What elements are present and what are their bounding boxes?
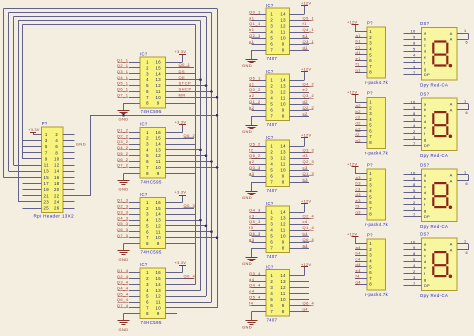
svg-text:2: 2 (413, 200, 416, 205)
svg-text:2: 2 (55, 132, 58, 137)
svg-text:9: 9 (413, 35, 416, 40)
svg-text:10: 10 (54, 156, 60, 161)
svg-text:DS?: DS? (420, 163, 430, 168)
svg-text:A: A (450, 241, 453, 246)
IC9 right net labels (303, 301, 315, 312)
svg-text:5: 5 (369, 52, 372, 57)
svg-text:g3: g3 (356, 209, 362, 214)
svg-text:+12V: +12V (347, 162, 357, 166)
IC4 left net labels (117, 268, 129, 308)
svg-text:g: g (424, 66, 427, 71)
IC1 left net labels (117, 57, 129, 97)
svg-text:a2: a2 (249, 93, 255, 98)
svg-text:e2: e2 (303, 87, 309, 92)
svg-text:A: A (450, 107, 453, 112)
svg-text:OE: OE (179, 75, 186, 80)
svg-text:11: 11 (281, 96, 286, 101)
svg-text:Q0_1: Q0_1 (249, 9, 261, 14)
svg-text:1: 1 (146, 60, 149, 65)
svg-text:Q2_3: Q2_3 (117, 204, 129, 209)
svg-text:+12V: +12V (347, 232, 357, 236)
svg-text:b1: b1 (249, 27, 255, 32)
power +12V at IC8 pin14 (289, 199, 311, 212)
wire cascade into IC3 pin14 (165, 214, 195, 216)
svg-text:2: 2 (270, 18, 273, 23)
svg-text:10: 10 (410, 99, 416, 104)
svg-text:10: 10 (156, 305, 162, 310)
svg-text:A: A (450, 37, 453, 42)
wire loop/bus OE net (18, 21, 201, 291)
svg-text:6: 6 (146, 89, 149, 94)
svg-text:7: 7 (45, 150, 48, 155)
svg-text:6: 6 (270, 174, 273, 179)
svg-text:7407: 7407 (267, 254, 278, 259)
svg-text:14: 14 (280, 78, 286, 83)
svg-text:7: 7 (270, 48, 273, 53)
svg-text:3: 3 (369, 111, 372, 116)
net STCP at IC1 pin12 (165, 81, 207, 87)
header left pin wires (23, 141, 42, 209)
svg-text:b: b (424, 37, 427, 42)
svg-text:1: 1 (464, 29, 466, 33)
svg-text:8: 8 (282, 246, 285, 251)
svg-text:2: 2 (369, 35, 372, 40)
svg-text:+12V: +12V (301, 263, 311, 267)
power +3.3V at header pin1 (28, 128, 41, 135)
DS2 common anode pins 1 and 6 (457, 100, 469, 115)
net label GND at header pin6 (76, 141, 86, 146)
svg-text:P?: P? (367, 162, 373, 167)
DS4 segment pin wires (404, 239, 422, 286)
svg-text:20: 20 (54, 187, 60, 192)
svg-text:6: 6 (466, 111, 468, 115)
svg-text:Dpy Red-CA: Dpy Red-CA (420, 82, 448, 87)
svg-text:Q1_3: Q1_3 (117, 198, 129, 203)
svg-text:9: 9 (282, 108, 285, 113)
svg-text:1: 1 (369, 241, 372, 246)
svg-text:IC?: IC? (140, 192, 148, 197)
svg-text:e3: e3 (249, 213, 255, 218)
wire cascade into IC4 pin14 (165, 284, 195, 286)
svg-text:13: 13 (280, 18, 286, 23)
svg-text:7: 7 (146, 235, 149, 240)
svg-text:12: 12 (156, 153, 162, 158)
svg-text:Q4_4: Q4_4 (117, 285, 129, 290)
IC8 left net labels (249, 207, 261, 242)
svg-text:8: 8 (55, 150, 58, 155)
power +12V at RP1 pin1 (347, 20, 367, 31)
net MR at IC4 pin10 (165, 307, 217, 309)
IC6 7407 hex buffer (266, 69, 289, 127)
svg-text:7: 7 (369, 206, 372, 211)
svg-text:6: 6 (466, 251, 468, 255)
resistor pack RP2 r-pack4.7k (365, 91, 389, 156)
IC5 right net labels (303, 15, 315, 50)
IC9 right pin wires (289, 282, 309, 312)
svg-text:GND: GND (119, 327, 129, 332)
svg-text:7: 7 (369, 276, 372, 281)
svg-text:b: b (424, 247, 427, 252)
IC6 left input wires (252, 81, 267, 111)
svg-text:14: 14 (280, 12, 286, 17)
svg-text:g: g (424, 208, 427, 213)
svg-text:A: A (450, 101, 453, 106)
svg-text:9: 9 (413, 176, 416, 181)
resistor pack RP4 r-pack4.7k (365, 232, 389, 297)
IC5 left input wires (252, 15, 267, 45)
svg-text:c: c (424, 43, 426, 48)
svg-text:5: 5 (270, 234, 273, 239)
net Q0_3 at IC3 pin15 (165, 203, 195, 208)
ground at IC7 pin7 (242, 182, 266, 200)
svg-text:+12V: +12V (301, 1, 311, 5)
svg-text:Q6_1: Q6_1 (117, 87, 129, 92)
svg-text:11: 11 (44, 163, 49, 168)
svg-text:Q6_4: Q6_4 (303, 301, 315, 306)
svg-text:+3.3V: +3.3V (175, 120, 187, 124)
svg-text:2: 2 (146, 65, 149, 70)
svg-text:3: 3 (413, 206, 416, 211)
svg-text:A: A (450, 247, 453, 252)
svg-text:Rpi Header 13X2: Rpi Header 13X2 (34, 214, 75, 219)
svg-text:13: 13 (156, 288, 162, 293)
IC6 right net labels (303, 81, 315, 116)
svg-text:+12V: +12V (347, 91, 357, 95)
display DS3 Dpy Red-CA 7-segment (420, 163, 457, 229)
ground at IC3 pin8 (118, 244, 141, 262)
svg-text:f2: f2 (249, 147, 254, 152)
svg-text:b1: b1 (356, 39, 362, 44)
resistor pack RP3 r-pack4.7k (365, 162, 389, 227)
svg-text:14: 14 (54, 169, 60, 174)
svg-text:2: 2 (413, 129, 416, 134)
power +12V at RP3 pin1 (347, 162, 367, 173)
svg-text:f1: f1 (303, 21, 308, 26)
svg-text:GND: GND (76, 141, 86, 146)
svg-text:11: 11 (281, 228, 286, 233)
junction on GND rail below IC1 ground (122, 114, 125, 117)
svg-text:Dpy Red-CA: Dpy Red-CA (420, 224, 448, 229)
svg-text:3: 3 (146, 71, 149, 76)
IC3 left net labels (117, 198, 129, 238)
svg-text:2: 2 (369, 247, 372, 252)
svg-text:2: 2 (270, 150, 273, 155)
svg-text:1: 1 (369, 171, 372, 176)
svg-text:4: 4 (369, 47, 372, 52)
svg-text:r-pack4.7k: r-pack4.7k (365, 222, 389, 227)
IC1 74HC595 shift register (140, 51, 165, 114)
svg-text:4: 4 (146, 77, 149, 82)
svg-text:3: 3 (369, 183, 372, 188)
net SHCP at IC2 pin11 (165, 160, 213, 163)
svg-text:P?: P? (367, 91, 373, 96)
svg-text:10: 10 (156, 95, 162, 100)
svg-text:f4: f4 (249, 301, 254, 306)
svg-text:Q4_1: Q4_1 (117, 75, 129, 80)
svg-text:Q2_2: Q2_2 (117, 133, 129, 138)
svg-text:Q3_3: Q3_3 (303, 147, 315, 152)
svg-text:8: 8 (146, 241, 149, 246)
svg-text:2: 2 (270, 279, 273, 284)
svg-text:e: e (424, 265, 427, 270)
svg-text:13: 13 (156, 77, 162, 82)
wire IC4 pin9 stub (165, 313, 177, 315)
svg-text:1: 1 (369, 100, 372, 105)
svg-text:4: 4 (55, 138, 58, 143)
svg-text:3: 3 (146, 282, 149, 287)
net OE at IC1 pin13 (165, 75, 202, 81)
svg-text:Q0_2: Q0_2 (249, 87, 261, 92)
svg-text:b3: b3 (356, 181, 362, 186)
svg-text:1: 1 (146, 130, 149, 135)
net SHCP at IC1 pin11 (165, 87, 213, 93)
svg-text:4: 4 (413, 263, 416, 268)
svg-text:6: 6 (55, 144, 58, 149)
svg-text:3: 3 (146, 212, 149, 217)
svg-text:Q7_2: Q7_2 (117, 163, 129, 168)
svg-text:7: 7 (146, 165, 149, 170)
svg-text:5: 5 (413, 257, 416, 262)
svg-text:Q6_1: Q6_1 (249, 75, 261, 80)
svg-text:3: 3 (413, 275, 416, 280)
svg-text:8: 8 (282, 180, 285, 185)
svg-text:4: 4 (369, 117, 372, 122)
svg-text:Q3_4: Q3_4 (249, 271, 261, 276)
svg-text:1: 1 (464, 171, 466, 175)
svg-text:MR: MR (179, 92, 186, 97)
svg-text:6: 6 (146, 229, 149, 234)
svg-text:6: 6 (146, 159, 149, 164)
ground at IC8 pin7 (242, 248, 266, 266)
svg-text:e3: e3 (356, 198, 362, 203)
svg-text:6: 6 (466, 182, 468, 186)
junction on GND rail at MR bus (216, 114, 219, 117)
IC2 left net labels (117, 128, 129, 168)
svg-text:9: 9 (157, 241, 160, 246)
svg-text:9: 9 (157, 311, 160, 316)
svg-text:4: 4 (413, 123, 416, 128)
svg-text:+12V: +12V (301, 199, 311, 203)
svg-text:GND: GND (242, 325, 252, 330)
wire cascade into IC2 pin14 (165, 144, 195, 146)
svg-text:f3: f3 (356, 204, 361, 209)
svg-text:12: 12 (280, 285, 286, 290)
svg-text:7: 7 (270, 180, 273, 185)
svg-text:13: 13 (280, 216, 286, 221)
svg-text:P?: P? (367, 20, 373, 25)
svg-text:10: 10 (280, 102, 286, 107)
svg-text:IC?: IC? (140, 262, 148, 267)
svg-text:c: c (424, 253, 426, 258)
svg-text:5: 5 (146, 83, 149, 88)
svg-text:74HC595: 74HC595 (141, 250, 162, 255)
wire GND rail from header pin22 (63, 115, 217, 196)
svg-text:11: 11 (281, 30, 286, 35)
svg-text:IC?: IC? (266, 265, 274, 270)
svg-text:8: 8 (282, 309, 285, 314)
RP1 segment wires and labels (355, 33, 367, 73)
svg-text:a1: a1 (249, 15, 255, 20)
svg-text:16: 16 (156, 270, 162, 275)
svg-text:74HC595: 74HC595 (141, 179, 162, 184)
svg-text:d: d (424, 119, 427, 124)
power +3.3V at IC3 pin16 (165, 191, 186, 203)
svg-text:3: 3 (270, 24, 273, 29)
svg-text:a4: a4 (356, 245, 362, 250)
svg-text:14: 14 (156, 71, 162, 76)
svg-text:+12V: +12V (301, 133, 311, 137)
wire loop/bus MR net (4, 9, 218, 308)
svg-text:Q5_2: Q5_2 (249, 141, 261, 146)
svg-text:b: b (424, 178, 427, 183)
svg-text:3: 3 (369, 41, 372, 46)
svg-text:1: 1 (270, 144, 273, 149)
svg-text:b2: b2 (356, 109, 362, 114)
svg-text:Q3_3: Q3_3 (117, 209, 129, 214)
svg-text:10: 10 (410, 170, 416, 175)
svg-text:14: 14 (280, 210, 286, 215)
svg-text:g1: g1 (356, 67, 362, 72)
svg-text:21: 21 (44, 193, 50, 198)
svg-text:1: 1 (146, 270, 149, 275)
wire loop/bus STCP net (14, 17, 207, 297)
svg-text:GND: GND (119, 116, 129, 121)
svg-text:1: 1 (369, 29, 372, 34)
IC2 left pin wires Q1-Q7 (129, 133, 140, 168)
DS3 segment pin wires (404, 170, 422, 217)
svg-text:5: 5 (413, 46, 416, 51)
svg-text:2: 2 (270, 216, 273, 221)
net STCP at IC4 pin12 (165, 296, 206, 298)
svg-text:f1: f1 (356, 62, 361, 67)
svg-text:A: A (450, 31, 453, 36)
svg-text:d: d (424, 48, 427, 53)
svg-text:Q5_2: Q5_2 (117, 151, 129, 156)
svg-text:6: 6 (369, 128, 372, 133)
svg-text:6: 6 (369, 270, 372, 275)
svg-text:Q5_1: Q5_1 (117, 81, 129, 86)
power +3.3V at IC1 pin16 (165, 50, 186, 62)
svg-text:12: 12 (280, 156, 286, 161)
header right pin wires (63, 135, 75, 209)
svg-text:8: 8 (413, 41, 416, 46)
svg-text:24: 24 (54, 199, 60, 204)
svg-text:10: 10 (410, 29, 416, 34)
svg-text:5: 5 (270, 102, 273, 107)
svg-text:c: c (424, 113, 426, 118)
svg-text:Q1_2: Q1_2 (117, 128, 129, 133)
svg-text:Q0_2: Q0_2 (184, 133, 196, 138)
svg-text:15: 15 (156, 276, 162, 281)
svg-text:15: 15 (156, 206, 162, 211)
svg-text:6: 6 (369, 58, 372, 63)
svg-text:DS?: DS? (420, 232, 430, 237)
svg-text:A: A (450, 178, 453, 183)
svg-text:IC?: IC? (266, 201, 274, 206)
IC1 left pin wires Q1-Q7 (129, 63, 140, 98)
svg-text:Q2_4: Q2_4 (303, 213, 315, 218)
svg-text:4: 4 (146, 218, 149, 223)
svg-text:7407: 7407 (267, 56, 278, 61)
svg-text:P?: P? (42, 121, 48, 126)
svg-text:74HC595: 74HC595 (141, 320, 162, 325)
svg-text:7: 7 (146, 305, 149, 310)
svg-text:7: 7 (270, 309, 273, 314)
svg-text:Q5_3: Q5_3 (249, 219, 261, 224)
svg-text:9: 9 (157, 171, 160, 176)
svg-text:5: 5 (146, 294, 149, 299)
svg-text:25: 25 (44, 206, 50, 211)
wire cascade IC1 pin9 to IC2 pin14 (165, 103, 195, 105)
svg-text:SHCP: SHCP (179, 87, 192, 92)
svg-text:15: 15 (156, 136, 162, 141)
IC8 right pin wires (289, 219, 309, 249)
svg-text:2: 2 (270, 84, 273, 89)
svg-text:GND: GND (242, 63, 252, 68)
svg-text:13: 13 (280, 84, 286, 89)
svg-text:8: 8 (369, 282, 372, 287)
svg-text:13: 13 (156, 218, 162, 223)
svg-text:Q4_3: Q4_3 (117, 215, 129, 220)
svg-text:Q3_2: Q3_2 (303, 93, 315, 98)
svg-text:g: g (424, 277, 427, 282)
svg-text:10: 10 (156, 165, 162, 170)
svg-text:8: 8 (413, 251, 416, 256)
svg-text:2: 2 (146, 136, 149, 141)
svg-text:11: 11 (281, 162, 286, 167)
svg-text:2: 2 (413, 58, 416, 63)
svg-text:Q1_1: Q1_1 (249, 21, 261, 26)
svg-text:f4: f4 (356, 274, 361, 279)
wire cascade IC3 pin9 to IC4 pin14 (165, 243, 195, 245)
svg-text:Q0_4: Q0_4 (184, 273, 196, 278)
svg-text:GND: GND (119, 257, 129, 262)
power +12V at IC6 pin14 (289, 67, 311, 80)
power +3.3V at IC2 pin16 (165, 120, 186, 132)
svg-text:3: 3 (369, 253, 372, 258)
ground at IC1 pin8 (118, 103, 141, 121)
svg-text:10: 10 (280, 297, 286, 302)
svg-text:11: 11 (156, 89, 161, 94)
svg-text:11: 11 (156, 229, 161, 234)
svg-text:13: 13 (280, 150, 286, 155)
svg-text:12: 12 (280, 222, 286, 227)
IC5 right pin wires (289, 21, 309, 51)
svg-text:8: 8 (146, 101, 149, 106)
svg-text:Q4_1: Q4_1 (303, 27, 315, 32)
svg-text:g1: g1 (249, 81, 255, 86)
svg-text:5: 5 (369, 194, 372, 199)
net SHCP at IC3 pin11 (165, 231, 213, 234)
svg-text:GND: GND (242, 195, 252, 200)
svg-text:Q3_2: Q3_2 (117, 139, 129, 144)
net STCP at IC3 pin12 (165, 225, 207, 228)
svg-text:1: 1 (464, 100, 466, 104)
RP2 segment wires and labels (355, 103, 367, 143)
DS4 digit segments (433, 252, 452, 278)
svg-text:1: 1 (464, 240, 466, 244)
svg-text:16: 16 (156, 60, 162, 65)
svg-text:5: 5 (369, 264, 372, 269)
wire loop/bus SHCP net (9, 13, 212, 303)
svg-text:a1: a1 (356, 33, 362, 38)
svg-text:13: 13 (156, 147, 162, 152)
svg-text:7: 7 (270, 114, 273, 119)
svg-text:STCP: STCP (179, 81, 192, 86)
svg-text:5: 5 (270, 168, 273, 173)
IC2 74HC595 shift register (140, 122, 165, 185)
svg-text:DP: DP (424, 72, 430, 77)
